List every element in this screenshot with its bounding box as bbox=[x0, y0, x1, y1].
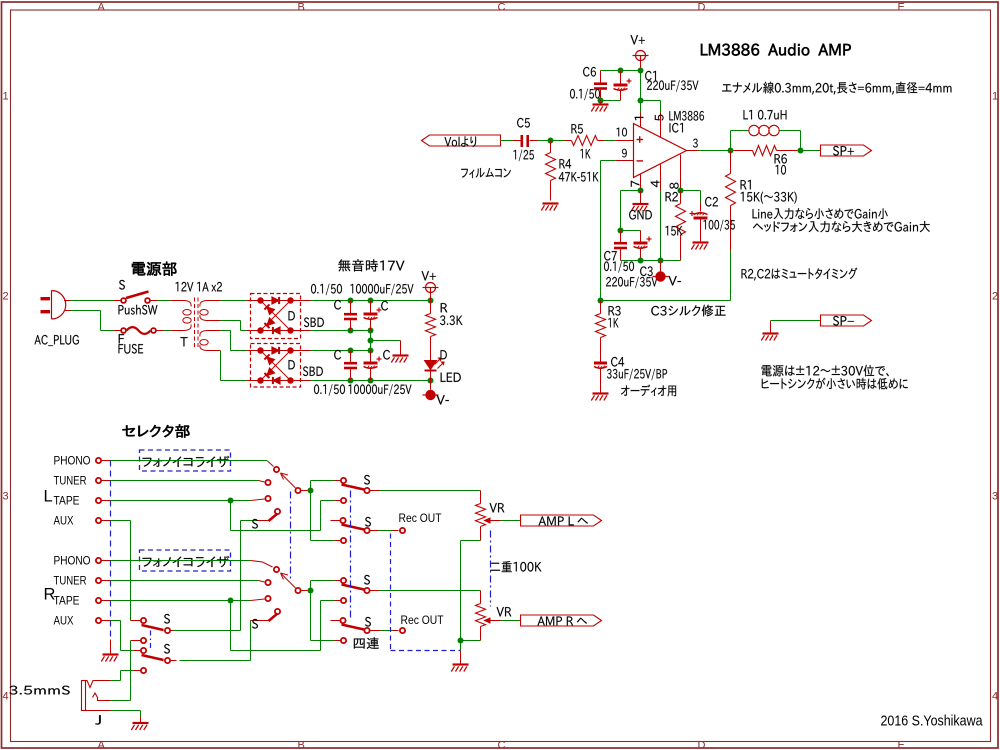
capacitor C6 bbox=[600, 71, 602, 83]
svg-text:TAPE: TAPE bbox=[54, 496, 80, 508]
svg-text:C: C bbox=[498, 740, 506, 750]
wire plug to fuse bbox=[71, 310, 101, 312]
net flag Volより input bbox=[422, 135, 501, 146]
node vplus psu bbox=[428, 298, 434, 304]
resistor R5 bbox=[565, 140, 572, 142]
terminal PHONO R bbox=[96, 558, 101, 563]
terminal PHONO L bbox=[96, 458, 101, 463]
resistor R3 bbox=[600, 301, 602, 314]
wire L1 branch bbox=[730, 131, 732, 151]
node pin7 bbox=[638, 188, 644, 194]
wire SW1R to VR bbox=[380, 590, 481, 592]
label AC_PLUG bbox=[34, 335, 78, 346]
wire SW1L in bbox=[311, 480, 335, 482]
resistor R6 bbox=[734, 150, 753, 152]
label C psu3 bbox=[334, 350, 341, 360]
wire row4 R bbox=[311, 640, 335, 642]
wire R5 to pin10 bbox=[605, 140, 616, 142]
inductor L1 bbox=[749, 125, 759, 135]
ground jack bbox=[140, 717, 142, 723]
wire VRL bottom bbox=[461, 540, 481, 542]
label S jack R bbox=[164, 644, 170, 654]
ground pin7 bbox=[640, 191, 642, 204]
wire R3 to C4 bbox=[600, 338, 602, 362]
contact PHONO R bbox=[274, 567, 279, 572]
title LM3886 Audio AMP bbox=[701, 44, 851, 56]
label R psu bbox=[441, 303, 448, 312]
annotation mute timing bbox=[741, 268, 857, 281]
wire sec2b route bbox=[220, 351, 222, 381]
label オーディオ用 bbox=[621, 385, 676, 397]
op-amp IC1 LM3886 bbox=[634, 124, 687, 178]
pin 8 label bbox=[670, 183, 679, 189]
wire bridge2 plus bbox=[291, 350, 311, 352]
capacitor C5 bbox=[513, 140, 521, 142]
contact SW2R bbox=[340, 618, 345, 623]
transformer T secondary lower bbox=[207, 330, 221, 332]
pin 3 label bbox=[693, 139, 698, 148]
switch S 2R bbox=[342, 625, 365, 630]
node pin4 Vminus bbox=[658, 258, 664, 264]
wire SW1R in bbox=[311, 580, 335, 582]
label C6 bbox=[583, 67, 596, 77]
label S 1R bbox=[364, 575, 370, 585]
terminal AUX R bbox=[96, 618, 101, 623]
label FUSE bbox=[118, 344, 143, 354]
switch S AUX L bbox=[257, 520, 269, 522]
ground gang bbox=[110, 640, 112, 655]
node feedback bottom bbox=[598, 298, 604, 304]
node pins supply bbox=[638, 98, 644, 104]
gang line S bank bbox=[350, 491, 352, 621]
node cap2b top bbox=[368, 348, 374, 354]
wire pin8 to C2 bbox=[681, 190, 701, 192]
pin 9 lead bbox=[616, 160, 634, 162]
wire bridge1 minus bbox=[291, 330, 311, 332]
node output bbox=[728, 148, 734, 154]
gang line VR bbox=[490, 531, 492, 607]
node C3 bottom bbox=[638, 258, 644, 264]
node R6 L1 right bbox=[798, 148, 804, 154]
label C psu2 bbox=[381, 301, 388, 311]
contact TUNER R bbox=[265, 580, 270, 585]
wire TAPE riser L bbox=[230, 501, 232, 531]
wire to SP+ bbox=[801, 150, 821, 152]
wire TAPE L bbox=[111, 500, 251, 502]
label 10000uF/25V top bbox=[351, 284, 414, 296]
label C1 bbox=[645, 71, 656, 81]
label R2 bbox=[666, 192, 678, 201]
wire sec2a route bbox=[221, 330, 231, 332]
label LM3886 bbox=[669, 111, 704, 121]
svg-text:TUNER: TUNER bbox=[54, 576, 87, 588]
svg-text:2: 2 bbox=[3, 291, 9, 303]
label C psu1 bbox=[334, 300, 341, 310]
wire TUNER L bbox=[111, 480, 259, 482]
wire fuse to transformer bbox=[164, 330, 171, 332]
ground C2 bbox=[700, 238, 702, 243]
resistor R1 bbox=[730, 151, 732, 174]
wire sec1b route bbox=[221, 320, 241, 322]
wire pin9 feedback bbox=[601, 160, 616, 162]
power V+ psu bbox=[426, 283, 436, 293]
capacitor C7 bbox=[620, 231, 622, 243]
node cap2a bot bbox=[348, 378, 354, 384]
pin 7 lead bbox=[640, 175, 642, 191]
ground C6 bbox=[600, 101, 602, 105]
node vminus psu bbox=[428, 378, 434, 384]
power V- amp bbox=[660, 261, 662, 272]
transformer T primary bbox=[171, 300, 185, 302]
label S switch bbox=[119, 280, 125, 290]
svg-text:PHONO: PHONO bbox=[54, 556, 91, 568]
svg-text:1: 1 bbox=[3, 91, 9, 103]
label S 1L bbox=[364, 475, 370, 485]
pole R selector bbox=[295, 588, 300, 593]
label 0.1/50 C6 bbox=[570, 89, 600, 101]
wire TAPE R bbox=[111, 600, 251, 602]
terminal Rec OUT L bbox=[400, 528, 405, 533]
label 3.3K bbox=[440, 315, 463, 325]
contact jack 4 bbox=[134, 670, 141, 672]
pin 5 label bbox=[655, 115, 664, 121]
wiper arrow R bbox=[281, 573, 296, 588]
wiper arrow L bbox=[281, 473, 296, 488]
label 1/25 bbox=[513, 150, 533, 162]
capacitor C elec psu1 bbox=[370, 301, 372, 314]
label 100/35 bbox=[703, 220, 734, 232]
wire AUX R riser bbox=[111, 620, 121, 622]
node cap2b bot bbox=[368, 378, 374, 384]
wire C5 to node bbox=[538, 140, 565, 142]
wire VRR bottom bbox=[461, 640, 481, 642]
resistor R2 bbox=[680, 191, 682, 204]
wire jack ring bbox=[111, 700, 131, 702]
label 二重100K bbox=[490, 561, 541, 572]
label PushSW bbox=[119, 305, 158, 315]
label IC1 bbox=[670, 123, 683, 133]
wire SW1L to VR bbox=[380, 490, 481, 492]
label 無音時17V bbox=[338, 259, 404, 271]
gang dashed line inputs bbox=[110, 461, 112, 640]
switch S jack R bbox=[142, 655, 164, 660]
contact SW2L bbox=[340, 518, 345, 523]
label C7 bbox=[604, 251, 617, 261]
switch S AUX R bbox=[257, 620, 269, 622]
phono equalizer box R bbox=[140, 550, 231, 571]
label S AUX L bbox=[252, 519, 258, 529]
wire wiper L bbox=[501, 520, 521, 522]
label C psu4 bbox=[383, 350, 390, 360]
label VR L bbox=[489, 503, 504, 512]
contact row2 R bbox=[341, 598, 346, 603]
switch S 2L bbox=[342, 525, 365, 530]
node mid bbox=[368, 338, 374, 344]
label S AUX R bbox=[252, 619, 258, 629]
annotation heatsink bbox=[762, 378, 908, 390]
pin 10 label bbox=[617, 128, 627, 137]
ground R4 bbox=[543, 202, 559, 204]
capacitor C film psu2 bbox=[350, 351, 352, 363]
label 0.1/50 bottom bbox=[314, 384, 345, 396]
pin 5 lead bbox=[660, 113, 662, 138]
node TAPE L bbox=[228, 498, 234, 504]
wire mid to gnd bbox=[371, 340, 401, 342]
wire V+ down amp bbox=[640, 71, 642, 113]
svg-text:D: D bbox=[698, 740, 706, 750]
label V+ psu bbox=[421, 271, 435, 280]
label 33uF/25V/BP bbox=[607, 369, 667, 381]
node C6 gnd bbox=[598, 98, 604, 104]
ground VR bbox=[460, 652, 462, 665]
label 四連 bbox=[354, 637, 379, 649]
node TAPE R bbox=[228, 598, 234, 604]
contact row4 R bbox=[341, 638, 346, 643]
capacitor C elec psu2 bbox=[370, 351, 372, 363]
label 220uF/35V C3 bbox=[606, 277, 657, 289]
annotation C3 silk bbox=[651, 305, 725, 317]
label 220uF/35V C1 bbox=[647, 80, 698, 92]
terminal Rec OUT R bbox=[400, 628, 405, 633]
label 0.1/50 top bbox=[311, 284, 342, 296]
pin 3 lead bbox=[687, 150, 699, 152]
wire AUX L riser bbox=[111, 520, 131, 522]
wire pin3 out bbox=[699, 150, 731, 152]
annotation enamel wire bbox=[722, 82, 951, 95]
stub SW2L bbox=[331, 520, 340, 522]
label J bbox=[95, 715, 101, 724]
contact TAPE R bbox=[265, 596, 270, 601]
label S jack L bbox=[164, 614, 170, 624]
net flag SP+ bbox=[821, 145, 872, 156]
wire PHONO R bbox=[111, 560, 251, 562]
capacitor C3 bbox=[640, 231, 642, 243]
contact AUX R bbox=[275, 609, 280, 614]
capacitor C4 bbox=[600, 361, 602, 364]
wire C6 C1 bottom bbox=[601, 100, 621, 102]
wire C7 C3 top bbox=[621, 230, 641, 232]
node cap1b bbox=[368, 298, 374, 304]
wire jack tip bbox=[111, 680, 121, 682]
capacitor C1 bbox=[620, 71, 622, 85]
led D bbox=[425, 361, 437, 370]
contact AUX L bbox=[275, 509, 280, 514]
wire feedback to R1 bbox=[601, 300, 731, 302]
pole L selector bbox=[295, 488, 300, 493]
resistor R4 bbox=[550, 141, 552, 153]
label C5 bbox=[517, 118, 530, 128]
svg-text:Rec OUT: Rec OUT bbox=[399, 511, 443, 525]
contact jack 3 bbox=[134, 650, 141, 652]
wire rec R bbox=[381, 630, 393, 632]
ground psu mid bbox=[400, 341, 402, 356]
node cap2a top bbox=[348, 348, 354, 354]
wire mid link upper bbox=[370, 331, 372, 351]
wire plug to switch bbox=[71, 300, 114, 302]
pin 9 label bbox=[622, 149, 627, 158]
contact TUNER L bbox=[265, 480, 270, 485]
wire jackswL to AUXsw bbox=[174, 630, 241, 632]
potentiometer VR L bbox=[480, 491, 482, 504]
wire R1 bottom bbox=[730, 251, 732, 301]
pin 8 lead bbox=[680, 155, 682, 191]
svg-text:A: A bbox=[98, 2, 106, 14]
annotation headphone gain bbox=[753, 221, 930, 232]
contact jack 1 bbox=[131, 620, 141, 622]
contact PHONO L bbox=[274, 467, 279, 472]
label LED bbox=[441, 373, 461, 382]
node cap1a bot bbox=[348, 328, 354, 334]
ground SP- bbox=[763, 332, 779, 334]
switch S 1L bbox=[341, 478, 346, 483]
label SBD bridge2 bbox=[303, 366, 323, 376]
capacitor C film psu1 bbox=[350, 301, 352, 314]
wire input to C5 bbox=[501, 140, 513, 142]
wire sec1a to bridge1 bbox=[221, 300, 247, 302]
node V+ amp bbox=[638, 68, 644, 74]
power V- psu bbox=[430, 381, 432, 390]
label S 2R bbox=[365, 617, 371, 627]
label 0.1/50 C7 bbox=[604, 261, 634, 273]
label F bbox=[119, 334, 124, 343]
switch S jack L bbox=[142, 625, 164, 630]
pin 1 label bbox=[635, 117, 644, 120]
svg-text:AUX: AUX bbox=[54, 516, 74, 528]
terminal TAPE R bbox=[96, 598, 101, 603]
wire TUNER R bbox=[111, 580, 259, 582]
svg-text:TAPE: TAPE bbox=[54, 596, 80, 608]
label R3 bbox=[609, 306, 621, 316]
label 12V 1A x2 bbox=[176, 282, 222, 292]
contact row2 L bbox=[341, 498, 346, 503]
annotation power range bbox=[762, 365, 889, 377]
label S 2L bbox=[365, 517, 371, 527]
node VR common bbox=[458, 638, 464, 644]
label V- amp bbox=[668, 276, 680, 285]
svg-text:4: 4 bbox=[992, 691, 998, 703]
net flag SP- bbox=[821, 315, 872, 326]
label R6 bbox=[775, 154, 787, 164]
label 1K R3 bbox=[608, 318, 618, 327]
label フォノイコライザ L bbox=[143, 456, 230, 467]
potentiometer VR R bbox=[480, 591, 482, 604]
label T bbox=[180, 337, 187, 346]
svg-text:Rec OUT: Rec OUT bbox=[401, 613, 445, 627]
pin 4 lead bbox=[660, 165, 662, 191]
section header 電源部 bbox=[132, 262, 176, 276]
label GND bbox=[629, 210, 652, 220]
label 3.5mmS bbox=[9, 686, 69, 695]
label C4 bbox=[611, 357, 624, 367]
label 10 R6 bbox=[776, 165, 786, 175]
wire PHONO L bbox=[111, 460, 268, 462]
terminal TUNER R bbox=[96, 578, 101, 583]
wire bridge2 minus rail bbox=[291, 380, 311, 382]
label 15K R2 bbox=[666, 226, 683, 236]
label V- psu bbox=[436, 395, 448, 404]
transformer core bbox=[194, 298, 196, 348]
wire TAPE riser R bbox=[230, 601, 232, 651]
svg-text:E: E bbox=[898, 2, 905, 14]
wire jack sleeve bbox=[111, 710, 141, 712]
capacitor C2 bbox=[700, 203, 702, 212]
gang line rotary bbox=[290, 492, 292, 581]
wire pole R riser bbox=[310, 581, 312, 641]
node cap1b bot bbox=[368, 328, 374, 334]
gang jack switches bbox=[150, 631, 152, 650]
wire row4 L bbox=[311, 540, 335, 542]
label フィルムコン bbox=[461, 168, 511, 178]
fuse F bbox=[114, 330, 121, 332]
svg-text:D: D bbox=[698, 2, 706, 14]
switch S power bbox=[114, 300, 121, 302]
label 15K R1 bbox=[741, 192, 797, 204]
node C1 top bbox=[618, 68, 624, 74]
svg-text:2: 2 bbox=[992, 291, 998, 303]
wire switch to transformer bbox=[158, 300, 171, 302]
label R4 bbox=[559, 159, 571, 168]
wire pole L riser bbox=[310, 481, 312, 541]
svg-text:PHONO: PHONO bbox=[54, 456, 91, 468]
bridge rectifier D SBD lower bbox=[251, 344, 301, 388]
wire rec L bbox=[379, 530, 393, 532]
terminal TUNER L bbox=[96, 478, 101, 483]
svg-text:3: 3 bbox=[3, 491, 9, 503]
terminal TAPE L bbox=[96, 498, 101, 503]
label R5 bbox=[571, 124, 582, 133]
power V+ amp bbox=[636, 51, 646, 61]
section header セレクタ部 bbox=[122, 424, 189, 437]
phono equalizer box L bbox=[140, 450, 231, 471]
pin 1 lead bbox=[640, 113, 642, 128]
rec dashed group bbox=[390, 534, 392, 651]
svg-text:C: C bbox=[498, 2, 506, 14]
pin 10 lead bbox=[616, 140, 634, 142]
node C7 top bbox=[618, 228, 624, 234]
pin 4 label bbox=[651, 180, 660, 187]
svg-text:2016 S.Yoshikawa: 2016 S.Yoshikawa bbox=[881, 714, 984, 730]
wire V- rail amp bbox=[621, 260, 681, 262]
svg-text:L: L bbox=[44, 488, 53, 506]
switch S 1R bbox=[341, 578, 346, 583]
label R1 bbox=[741, 180, 751, 189]
svg-text:1: 1 bbox=[992, 91, 998, 103]
svg-text:B: B bbox=[298, 2, 305, 14]
terminal AUX L bbox=[96, 518, 101, 523]
ac plug AC_PLUG bbox=[41, 297, 51, 300]
svg-text:4: 4 bbox=[3, 691, 9, 703]
wire V+ rail amp bbox=[601, 70, 641, 72]
resistor R 3.3K bbox=[430, 301, 432, 314]
node cap1a bbox=[348, 298, 354, 304]
node pin8 bbox=[678, 188, 684, 194]
net flag AMP L bbox=[521, 515, 602, 526]
node input junction bbox=[548, 138, 554, 144]
label V+ amp bbox=[630, 35, 644, 44]
label 47K-51K bbox=[559, 172, 599, 182]
label D bridge1 bbox=[289, 311, 295, 320]
stub SW2R bbox=[331, 620, 340, 622]
label SBD bridge1 bbox=[304, 317, 324, 327]
wire wiper R bbox=[501, 620, 521, 622]
node pole L bbox=[308, 488, 314, 494]
svg-text:3: 3 bbox=[992, 491, 998, 503]
contact jack 2 bbox=[131, 640, 141, 642]
wire bridge1 plus rail bbox=[291, 300, 311, 302]
svg-text:TUNER: TUNER bbox=[54, 476, 87, 488]
wire jackswR to AUXswR bbox=[180, 660, 251, 662]
svg-text:A: A bbox=[98, 740, 106, 750]
